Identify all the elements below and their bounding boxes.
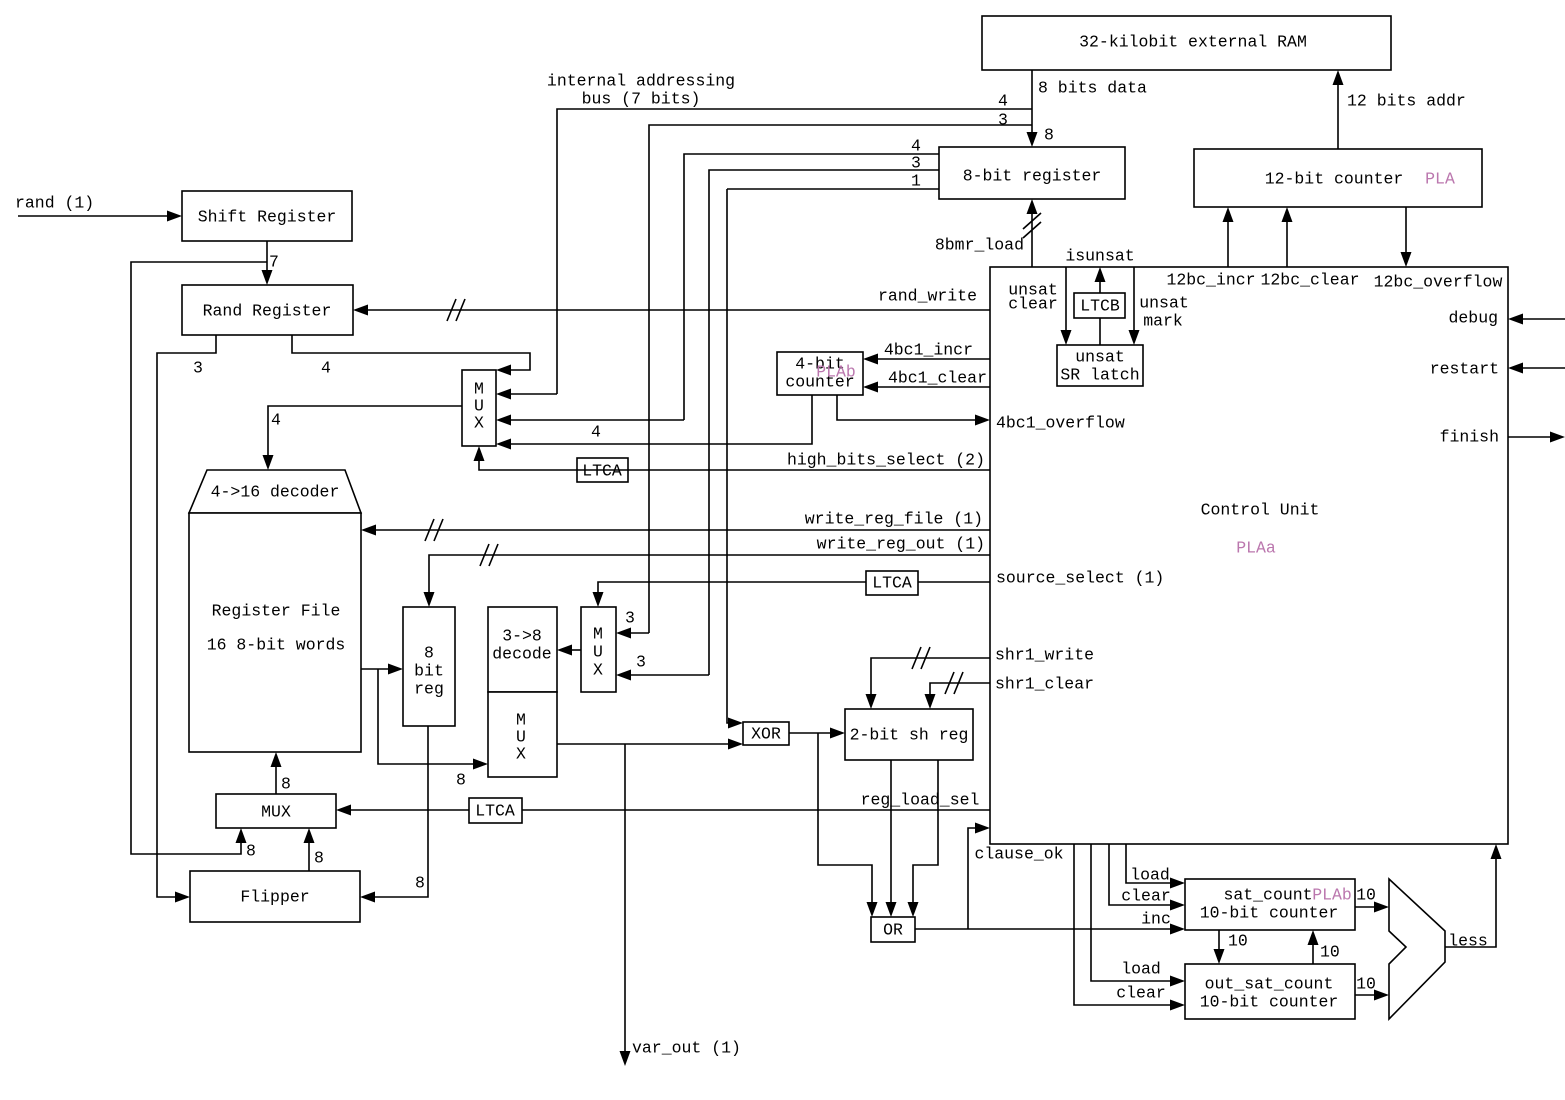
svg-text:4bc1_incr: 4bc1_incr [884,341,973,360]
wire sat clear [1109,844,1185,911]
svg-text:reg_load_sel: reg_load_sel [861,791,980,810]
wire 12bc_overflow [1401,207,1412,267]
svg-text:out_sat_count: out_sat_count [1205,975,1334,994]
wire write_reg_file [361,519,990,541]
sat_count 10-bit counter (PLAb) [1185,879,1355,930]
svg-text:Control Unit: Control Unit [1201,501,1320,520]
svg-text:write_reg_file (1): write_reg_file (1) [805,510,983,529]
svg-text:3->8: 3->8 [502,627,542,646]
svg-text:XOR: XOR [751,725,781,744]
3->8 decode [488,607,557,692]
svg-text:load: load [1130,866,1170,885]
svg-text:4: 4 [271,411,281,430]
wire write_reg_out [424,544,991,607]
svg-text:clear: clear [1008,295,1058,314]
svg-text:rand (1): rand (1) [15,194,94,213]
LTCA buffer A2 [866,571,918,595]
wire unsat mark [1129,267,1140,345]
wire XOR out to 2-bit sh reg [789,728,845,739]
wire 4bc1_incr [863,354,990,365]
svg-text:X: X [516,745,526,764]
wire shr1_clear [925,672,991,709]
write-back MUX M4 [216,794,336,828]
svg-text:load: load [1121,960,1161,979]
wire shift-reg tee to left rail [131,262,267,854]
svg-text:LTCB: LTCB [1080,297,1120,316]
Control Unit (PLAa) [990,267,1508,844]
svg-text:4: 4 [998,92,1008,111]
svg-text:8: 8 [281,775,291,794]
svg-text:M: M [593,625,603,644]
svg-text:3: 3 [998,111,1008,130]
wire mux M3 out to XOR [557,739,743,750]
svg-text:mark: mark [1143,312,1183,331]
svg-text:3: 3 [911,154,921,173]
wire XOR out branch to OR [818,733,878,917]
svg-text:12bc_clear: 12bc_clear [1260,271,1359,290]
32-kilobit external RAM [982,16,1391,70]
svg-text:LTCA: LTCA [872,574,912,593]
2-bit sh reg [845,709,973,760]
wire out_sat_count to comparator (10) [1355,990,1389,1001]
wire 12bc_incr [1223,207,1234,267]
svg-text:decode: decode [492,645,551,664]
wire bus line2 to mux M2 [616,125,1032,639]
unsat SR latch [1057,345,1143,386]
svg-text:clear: clear [1121,887,1171,906]
wire OR out to sat_count inc [915,924,1185,935]
wire restart [1508,363,1565,374]
wire sat load [1126,844,1185,889]
wire clause_ok [968,823,990,930]
wire LTCA A3 to mux M4 [336,805,469,816]
svg-text:12bc_incr: 12bc_incr [1166,271,1255,290]
svg-text:8-bit register: 8-bit register [963,167,1102,186]
wire 12 bits addr [1333,70,1344,149]
Shift Register [182,191,352,241]
svg-text:PLA: PLA [1425,170,1455,189]
svg-text:10: 10 [1356,886,1376,905]
wire mux M2 out to decode [557,645,581,656]
svg-text:10: 10 [1356,975,1376,994]
wire 2-bit sh reg out b to OR [908,760,939,917]
LTCA buffer A3 [469,798,522,823]
svg-text:internal addressing: internal addressing [547,72,735,91]
svg-text:reg: reg [414,680,444,699]
svg-text:isunsat: isunsat [1065,247,1134,266]
svg-text:MUX: MUX [261,803,291,822]
LTCB buffer [1074,293,1125,318]
OR gate [871,917,915,942]
svg-text:restart: restart [1430,360,1499,379]
wire 12bc_clear [1282,207,1293,267]
svg-text:rand_write: rand_write [878,287,977,306]
svg-text:8: 8 [456,771,466,790]
8 bit reg [403,607,455,726]
svg-text:finish: finish [1440,428,1499,447]
svg-text:8: 8 [246,842,256,861]
svg-text:3: 3 [625,609,635,628]
svg-text:8 bits data: 8 bits data [1038,79,1147,98]
wire var_out [620,744,631,1066]
svg-text:sat_count: sat_count [1223,886,1312,905]
svg-text:unsat: unsat [1139,294,1189,313]
address MUX M1 [462,370,496,446]
svg-text:less: less [1448,932,1488,951]
svg-text:LTCA: LTCA [475,802,515,821]
wire 8bmr_load [1023,199,1041,267]
wire high_bits_select [474,446,991,470]
svg-text:shr1_clear: shr1_clear [995,675,1094,694]
4-bit counter (PLAb) [777,352,863,395]
svg-text:shr1_write: shr1_write [995,646,1094,665]
svg-text:PLAb: PLAb [1312,886,1352,905]
Flipper [190,871,360,922]
wire 2-bit sh reg out a to OR [886,760,897,917]
svg-text:X: X [474,414,484,433]
wire out_sat to sat (10) [1308,930,1319,964]
svg-text:8: 8 [314,849,324,868]
wire out_sat clear [1074,844,1185,1011]
svg-text:inc: inc [1141,910,1171,929]
wire shift-reg to rand-reg (7) [262,241,273,285]
wire bit bus 3 [616,170,939,681]
svg-text:Rand Register: Rand Register [203,302,332,321]
wire less to control unit [1445,844,1502,947]
wire reg file out to 8 bit reg [361,664,403,675]
svg-text:16 8-bit words: 16 8-bit words [207,636,346,655]
wire 4bc1_clear [863,382,990,393]
svg-text:7: 7 [269,253,279,272]
svg-text:8: 8 [424,644,434,663]
wire 8 bit reg to flipper [360,726,428,903]
svg-text:unsat: unsat [1075,348,1125,367]
wire rand-reg 4 to mux M1 [292,335,530,376]
svg-text:12 bits addr: 12 bits addr [1347,92,1466,111]
wire sat to out_sat (10) [1214,930,1225,964]
svg-text:PLAb: PLAb [816,363,856,382]
out_sat_count 10-bit counter [1185,964,1355,1019]
svg-text:LTCA: LTCA [582,462,622,481]
wire mux M1 out to decoder (4) [263,406,463,470]
svg-text:3: 3 [193,359,203,378]
svg-text:10-bit counter: 10-bit counter [1200,904,1339,923]
svg-text:bit: bit [414,662,444,681]
svg-text:4bc1_overflow: 4bc1_overflow [996,414,1125,433]
wire rand_write [353,299,990,321]
svg-text:clear: clear [1116,984,1166,1003]
svg-text:Shift Register: Shift Register [198,208,337,227]
Rand Register [182,285,353,335]
Register File 16 8-bit words [189,513,361,752]
svg-text:32-kilobit external RAM: 32-kilobit external RAM [1079,33,1307,52]
svg-text:4: 4 [591,423,601,442]
wire unsat clear [1061,267,1072,345]
svg-text:SR latch: SR latch [1060,366,1139,385]
wire source_select [918,581,990,583]
wire LTCA A2 to mux M2 [593,582,867,607]
wire isunsat [1095,267,1106,293]
wire mux M4 to reg file [271,752,282,794]
wire nibble bus 4 [496,154,939,426]
svg-text:write_reg_out (1): write_reg_out (1) [817,535,985,554]
svg-text:var_out (1): var_out (1) [632,1039,741,1058]
output MUX M3 [488,692,557,777]
svg-text:Flipper: Flipper [240,888,309,907]
svg-text:8: 8 [1044,126,1054,145]
svg-text:OR: OR [883,921,903,940]
svg-text:X: X [593,661,603,680]
svg-text:10: 10 [1320,943,1340,962]
less-than comparator [1389,879,1445,1019]
svg-text:10: 10 [1228,932,1248,951]
wire reg file out to mux M3 [378,669,488,770]
wire bit line 1 to XOR [727,189,939,729]
wire debug [1508,314,1565,325]
wire rand input [18,211,182,222]
wire shr1_write [866,647,991,709]
svg-text:12bc_overflow: 12bc_overflow [1374,273,1503,292]
svg-text:source_select (1): source_select (1) [996,569,1164,588]
svg-text:debug: debug [1448,309,1498,328]
svg-text:1: 1 [911,172,921,191]
bit-select MUX M2 [581,607,616,692]
wire finish [1508,432,1565,443]
svg-text:3: 3 [636,653,646,672]
wire out_sat load [1091,844,1185,987]
svg-text:8: 8 [415,874,425,893]
svg-text:4->16 decoder: 4->16 decoder [211,483,340,502]
12-bit counter (PLA) [1194,149,1482,207]
svg-text:U: U [593,643,603,662]
svg-text:PLAa: PLAa [1236,539,1276,558]
4->16 decoder [189,470,361,513]
svg-text:4: 4 [321,359,331,378]
svg-text:2-bit sh reg: 2-bit sh reg [850,726,969,745]
svg-text:12-bit counter: 12-bit counter [1265,170,1404,189]
8-bit register U1 [939,147,1125,199]
wire LTCB to SR latch [1099,318,1101,345]
wire rand-reg 3 to flipper [157,335,216,903]
wire sat_count to comparator (10) [1355,902,1389,913]
wire reg_load_sel [522,809,990,811]
svg-text:high_bits_select (2): high_bits_select (2) [787,451,985,470]
svg-text:Register File: Register File [212,602,341,621]
LTCA buffer A1 [577,458,628,482]
svg-text:4bc1_clear: 4bc1_clear [888,369,987,388]
svg-text:clause_ok: clause_ok [974,845,1063,864]
XOR gate [743,722,789,745]
wire 4bc1 counter out to mux M1 [496,395,812,450]
wire 4bc1_overflow [837,395,990,426]
svg-text:8bmr_load: 8bmr_load [935,236,1024,255]
svg-text:10-bit counter: 10-bit counter [1200,993,1339,1012]
wire internal addressing bus line1 [496,109,1032,400]
svg-text:bus (7 bits): bus (7 bits) [582,90,701,109]
wire flipper to mux M4 [304,828,315,871]
wire 8 bits data [1027,70,1038,147]
